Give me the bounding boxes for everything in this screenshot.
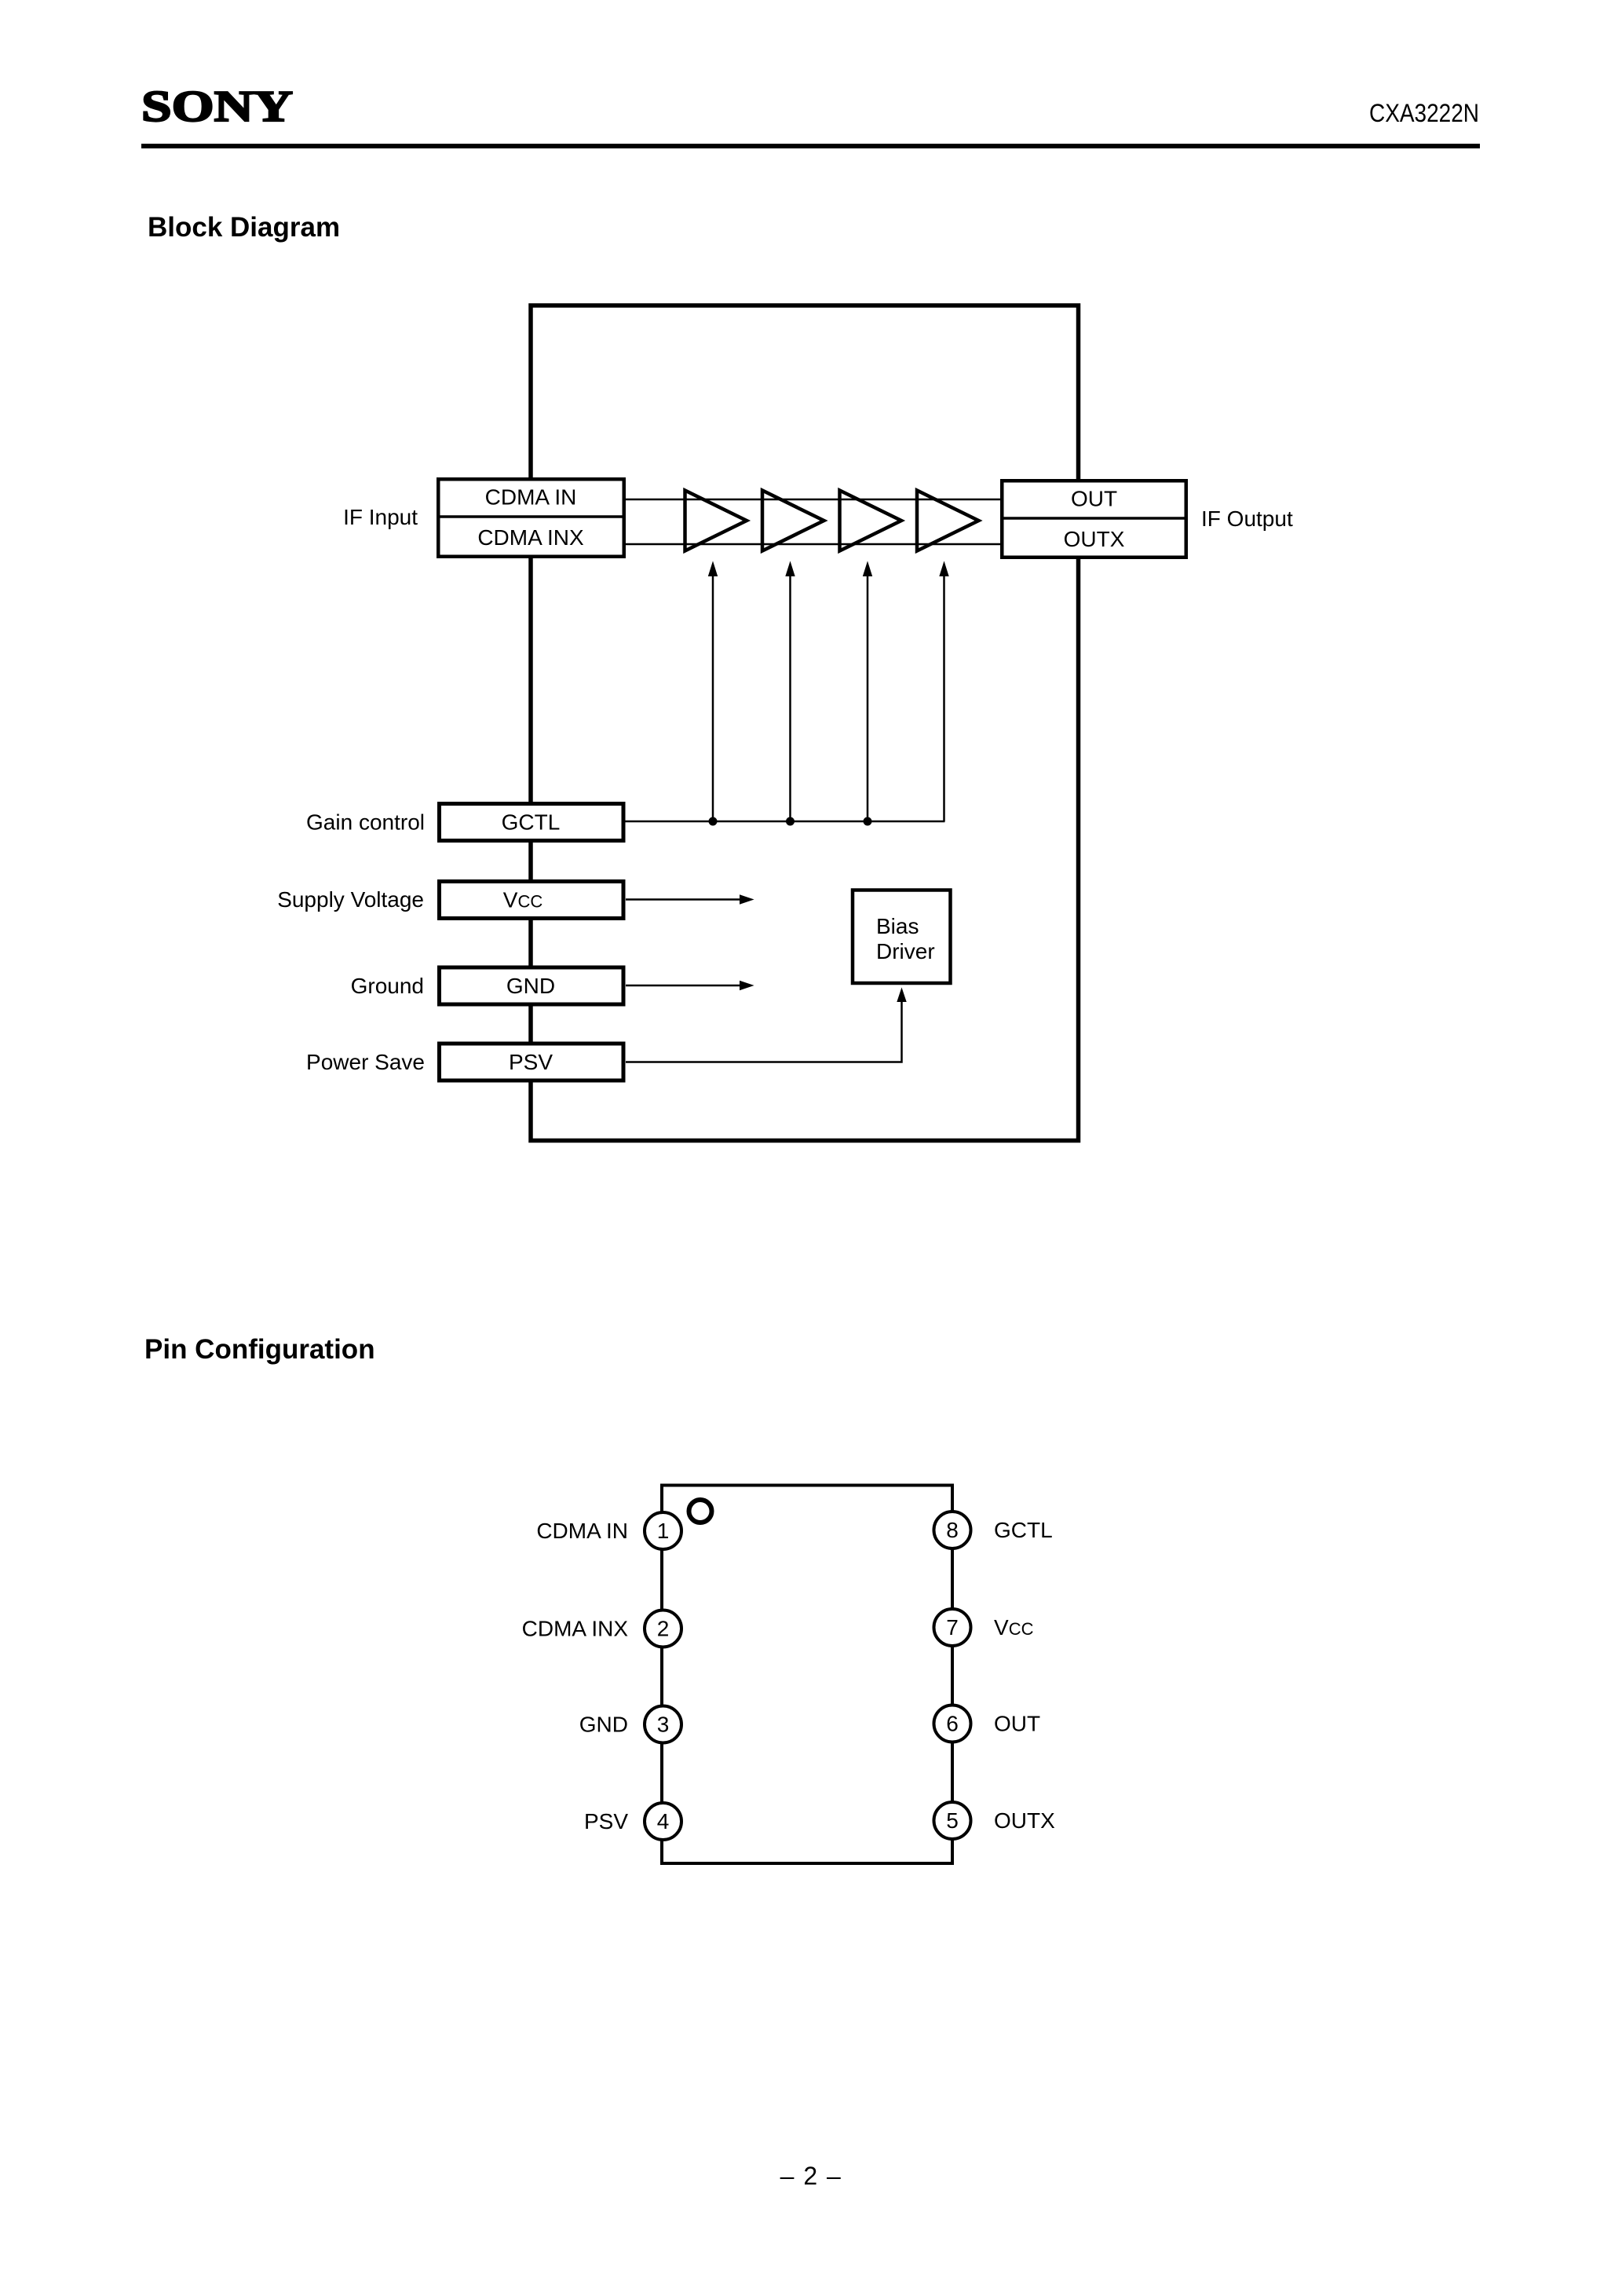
svg-text:PSV: PSV	[584, 1809, 628, 1834]
svg-text:CDMA INX: CDMA INX	[477, 525, 584, 550]
svg-text:Supply Voltage: Supply Voltage	[277, 887, 424, 912]
svg-text:CDMA IN: CDMA IN	[485, 485, 577, 510]
svg-text:5: 5	[946, 1808, 959, 1833]
svg-text:6: 6	[946, 1712, 959, 1736]
svg-text:IF Input: IF Input	[343, 505, 418, 529]
svg-text:Ground: Ground	[351, 974, 424, 998]
svg-text:GCTL: GCTL	[994, 1518, 1053, 1542]
svg-text:Driver: Driver	[876, 939, 935, 963]
svg-text:Gain control: Gain control	[306, 810, 425, 835]
svg-text:CXA3222N: CXA3222N	[1369, 99, 1479, 127]
svg-text:SONY: SONY	[141, 82, 293, 131]
svg-text:GND: GND	[506, 974, 555, 998]
svg-text:4: 4	[657, 1809, 670, 1834]
svg-text:OUTX: OUTX	[994, 1808, 1055, 1833]
svg-text:Power Save: Power Save	[306, 1050, 425, 1074]
svg-text:GND: GND	[579, 1713, 628, 1737]
svg-text:OUT: OUT	[1071, 487, 1117, 511]
svg-text:VCC: VCC	[994, 1615, 1034, 1640]
svg-text:Bias: Bias	[876, 914, 919, 938]
svg-text:OUT: OUT	[994, 1712, 1040, 1736]
svg-text:CDMA INX: CDMA INX	[522, 1617, 629, 1641]
svg-text:3: 3	[657, 1713, 670, 1737]
svg-text:8: 8	[946, 1518, 959, 1542]
svg-text:2: 2	[657, 1617, 670, 1641]
svg-text:OUTX: OUTX	[1064, 527, 1125, 551]
svg-text:PSV: PSV	[509, 1050, 553, 1074]
svg-text:Block Diagram: Block Diagram	[148, 212, 340, 243]
svg-text:7: 7	[946, 1615, 959, 1640]
svg-text:GCTL: GCTL	[502, 810, 561, 835]
svg-text:CDMA IN: CDMA IN	[536, 1519, 628, 1543]
svg-text:1: 1	[657, 1519, 670, 1543]
svg-text:IF Output: IF Output	[1201, 506, 1293, 531]
svg-text:VCC: VCC	[503, 888, 543, 912]
svg-text:Pin Configuration: Pin Configuration	[144, 1334, 375, 1365]
svg-text:– 2 –: – 2 –	[780, 2162, 842, 2190]
